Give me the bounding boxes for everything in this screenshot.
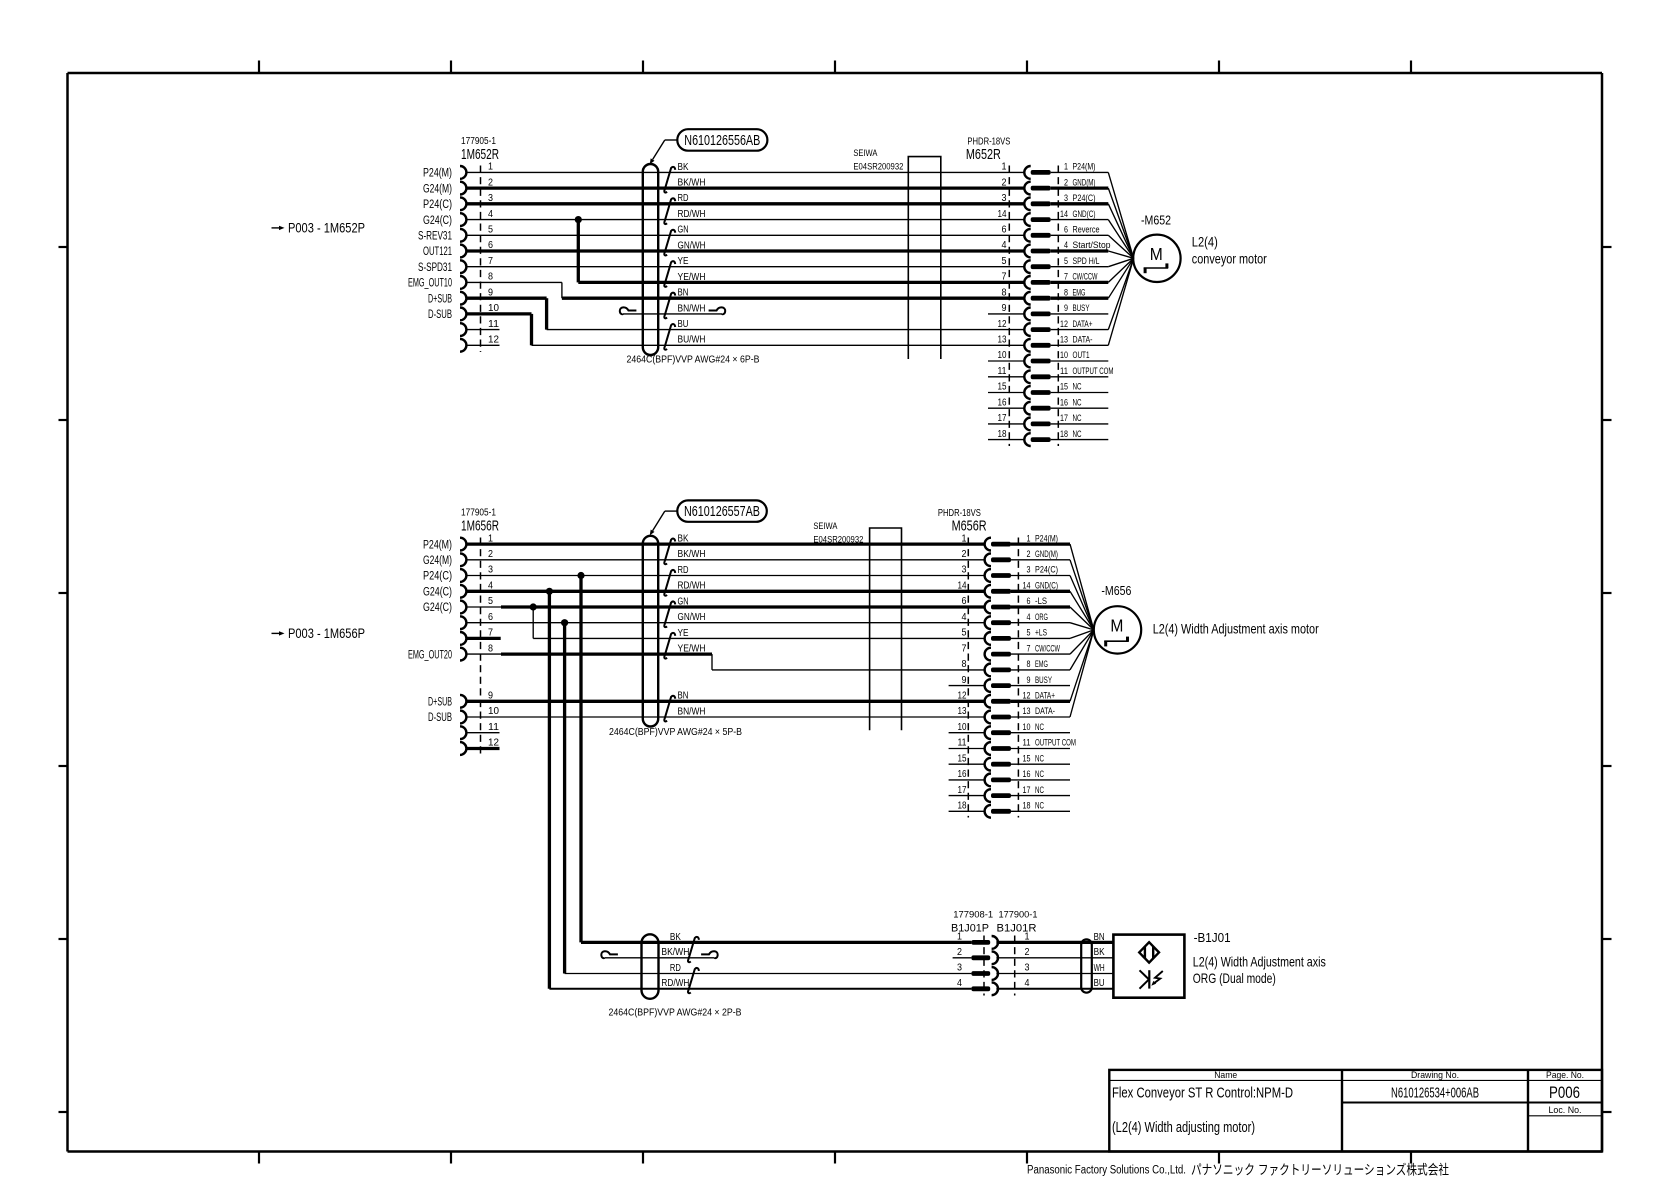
svg-text:11: 11 <box>488 721 499 733</box>
balloon leader <box>665 510 678 512</box>
svg-text:NC: NC <box>1035 769 1044 779</box>
connector B1J01R pin 1 socket <box>992 936 998 949</box>
connector M656R pin 2 socket <box>985 553 991 566</box>
svg-text:12: 12 <box>488 334 499 346</box>
svg-text:B1J01R: B1J01R <box>997 922 1037 934</box>
svg-text:OUT1: OUT1 <box>1073 350 1090 360</box>
wire GN (S-REV31 to M652R pin6) <box>466 234 1025 236</box>
svg-text:+LS: +LS <box>1035 628 1047 638</box>
connector 1M652R pin 10 contact <box>460 308 466 321</box>
motor lead from M656R row 4 <box>1070 591 1094 630</box>
wire branch G24(C) down to YE/WH <box>577 220 580 283</box>
svg-text:4: 4 <box>1002 240 1007 251</box>
svg-text:P24(M): P24(M) <box>423 168 452 180</box>
svg-text:D+SUB: D+SUB <box>428 697 452 709</box>
connector M652R pin 8 socket <box>1024 292 1030 305</box>
motor lead from M652R row 2 <box>1108 188 1133 258</box>
M652R pin 4 lead <box>1051 249 1109 252</box>
svg-text:11: 11 <box>488 318 499 330</box>
svg-text:BN: BN <box>678 691 689 702</box>
svg-text:Name: Name <box>1214 1070 1237 1081</box>
svg-text:CW/CCW: CW/CCW <box>1035 643 1060 653</box>
wire M656R row13 stub <box>949 732 985 734</box>
M656R pin 8 lead <box>1011 669 1070 671</box>
wire M656R row 18 stub <box>949 810 985 812</box>
svg-text:NC: NC <box>1073 413 1082 423</box>
M656R pin 13 lead <box>1011 716 1070 718</box>
svg-text:16: 16 <box>1023 769 1031 780</box>
svg-text:SPD H/L: SPD H/L <box>1073 256 1100 266</box>
svg-text:P003 - 1M656P: P003 - 1M656P <box>288 626 365 641</box>
connector M656R pin 12 socket <box>985 695 991 708</box>
svg-text:WH: WH <box>1094 963 1105 974</box>
svg-text:P24(C): P24(C) <box>423 199 452 211</box>
wire D+SUB stub <box>466 297 547 300</box>
wire BU (DATA+ to M652R pin12) <box>547 329 1025 331</box>
connector M652R pin 16 contact <box>1031 406 1051 411</box>
svg-text:3: 3 <box>1025 962 1030 974</box>
connector M656R pin 18 socket <box>985 805 991 818</box>
svg-text:GND(C): GND(C) <box>1035 581 1058 591</box>
M652R pin 13 lead <box>1051 344 1109 346</box>
connector M656R pin 8 socket <box>985 664 991 677</box>
connector 1M656R pin 1 contact <box>460 538 466 551</box>
svg-text:5: 5 <box>1027 628 1031 639</box>
wire GN (G24(C) pin5 to M656R pin6) <box>466 606 501 608</box>
svg-text:L2(4): L2(4) <box>1192 233 1218 249</box>
M656R pin 18 lead <box>1011 810 1070 812</box>
svg-text:9: 9 <box>1064 303 1068 314</box>
svg-text:1: 1 <box>488 161 493 173</box>
svg-text:2: 2 <box>1025 946 1030 958</box>
shield clamp box <box>908 157 941 359</box>
title block divider drawing/page <box>1527 1070 1529 1152</box>
connector M656R pin 15 contact <box>991 762 1011 767</box>
connector M656R pin 7 contact <box>991 652 1011 657</box>
svg-text:Start/Stop: Start/Stop <box>1073 240 1111 250</box>
wire RD (P24(C) to M652R pin3) <box>466 202 1025 205</box>
connector B1J01R pin 2 socket <box>992 951 998 964</box>
M656R pin 10 lead <box>1011 732 1070 734</box>
wire M652R row 17 stub <box>988 423 1025 425</box>
title block row line <box>1342 1102 1602 1104</box>
svg-text:S-REV31: S-REV31 <box>418 231 452 243</box>
svg-text:RD/WH: RD/WH <box>661 978 689 989</box>
connector M652R pin 9 socket <box>1024 308 1030 321</box>
connector 1M656R pin 6 contact <box>460 616 466 629</box>
svg-text:14: 14 <box>998 209 1007 220</box>
connector M652R pin 12 socket <box>1024 323 1030 336</box>
svg-text:15: 15 <box>1060 382 1068 393</box>
svg-text:5: 5 <box>1002 256 1007 267</box>
svg-text:2464C(BPF)VVP AWG#24 × 2P-B: 2464C(BPF)VVP AWG#24 × 2P-B <box>609 1007 742 1018</box>
svg-text:Reverce: Reverce <box>1073 225 1100 235</box>
motor M652 body <box>1133 235 1180 282</box>
M656R pin 12 lead <box>1011 700 1070 703</box>
svg-text:14: 14 <box>958 581 967 592</box>
connector M652R pin 9 contact <box>1031 312 1051 317</box>
svg-text:16: 16 <box>998 397 1007 408</box>
svg-text:18: 18 <box>958 801 967 812</box>
M652R pin 8 lead <box>1051 297 1109 300</box>
M656R pin 3 lead <box>1011 575 1070 577</box>
M652R pin 5 lead <box>1051 266 1109 268</box>
svg-text:BUSY: BUSY <box>1073 303 1090 313</box>
M656R pin 14 lead <box>1011 590 1070 593</box>
svg-text:3: 3 <box>1002 193 1007 204</box>
connector M652R pin 8 contact <box>1031 296 1051 301</box>
svg-text:M652R: M652R <box>966 146 1001 163</box>
svg-text:8: 8 <box>488 271 493 283</box>
connector 1M656R pin 5 contact <box>460 601 466 614</box>
svg-text:E04SR200932: E04SR200932 <box>853 162 903 173</box>
svg-text:12: 12 <box>958 691 967 702</box>
svg-text:P24(M): P24(M) <box>423 539 452 551</box>
wire M652R row 16 stub <box>988 407 1025 409</box>
svg-text:13: 13 <box>958 706 967 717</box>
svg-text:3: 3 <box>488 564 493 576</box>
twisted pair mark BN/BN-WH <box>664 696 675 722</box>
svg-text:13: 13 <box>998 335 1007 346</box>
wire to M656R pin8 EMG <box>712 669 985 671</box>
connector B1J01P dashed body line <box>983 936 985 996</box>
connector 1M652R dashed body line <box>480 166 482 353</box>
svg-text:BN/WH: BN/WH <box>678 706 706 717</box>
svg-text:16: 16 <box>1060 397 1068 408</box>
wire BK/WH (G24(M) to M652R pin2) <box>466 186 1025 189</box>
connector 1M652R pin 11 contact <box>460 323 466 336</box>
svg-text:P24(C): P24(C) <box>423 571 452 583</box>
wire M656R row 15 stub <box>949 763 985 765</box>
wire RD (P24(C) to M656R pin3) <box>466 575 985 577</box>
twisted pair mark RD/RD-WH <box>688 968 699 993</box>
svg-text:6: 6 <box>1064 225 1068 236</box>
connector M656R pin 18 contact <box>991 809 1011 814</box>
connector M656R pin 10 socket <box>985 726 991 739</box>
connector M656R pin 3 contact <box>991 573 1011 578</box>
svg-text:8: 8 <box>488 642 493 654</box>
cable label N610126557AB balloon <box>677 500 767 521</box>
wire YE/WH (to M652R pin7) <box>578 281 1024 284</box>
M652R pin 7 lead <box>1051 281 1109 284</box>
svg-text:OUTPUT COM: OUTPUT COM <box>1073 366 1114 376</box>
connector M656R pin 11 contact <box>991 746 1011 751</box>
connector M652R pin 15 socket <box>1024 386 1030 399</box>
wire M656R row 16 stub <box>949 779 985 781</box>
wire WH (B1J01R pin3 to sensor) <box>996 973 1113 975</box>
M656R pin 9 lead <box>1011 685 1070 687</box>
connector M656R pin 11 socket <box>985 742 991 755</box>
svg-text:D+SUB: D+SUB <box>428 293 452 305</box>
M652R pin 14 lead <box>1051 219 1109 221</box>
sensor cable shield oval <box>1081 939 1092 992</box>
svg-text:DATA-: DATA- <box>1035 706 1055 716</box>
svg-text:7: 7 <box>1002 272 1007 283</box>
svg-text:10: 10 <box>1023 722 1031 733</box>
M652R pin 3 lead <box>1051 202 1109 205</box>
svg-text:BU/WH: BU/WH <box>678 335 706 346</box>
junction G24(C) branch <box>546 588 553 595</box>
svg-text:D-SUB: D-SUB <box>428 712 452 724</box>
connector B1J01P pin 1 contact <box>971 940 990 945</box>
svg-text:8: 8 <box>1027 659 1031 670</box>
twisted pair mark BK/BK-WH <box>688 937 699 962</box>
svg-text:177908-1: 177908-1 <box>953 910 993 921</box>
connector M652R pin 16 socket <box>1024 402 1030 415</box>
motor M656 base symbol <box>1104 640 1129 642</box>
svg-text:Panasonic Factory Solutions Co: Panasonic Factory Solutions Co.,Ltd. <box>1027 1165 1186 1177</box>
cable shield N610126557AB <box>643 536 658 727</box>
connector M656R pin 3 socket <box>985 569 991 582</box>
junction G24(C)/YE-WH <box>575 216 582 223</box>
connector M652R pin 18 socket <box>1024 433 1030 446</box>
svg-text:2464C(BPF)VVP AWG#24 × 6P-B: 2464C(BPF)VVP AWG#24 × 6P-B <box>627 354 760 365</box>
connector 1M656R dashed body line <box>480 538 482 756</box>
connector M656R pin 5 contact <box>991 636 1011 641</box>
motor M652 base symbol <box>1144 267 1169 269</box>
svg-text:4: 4 <box>1025 977 1030 989</box>
motor lead from M656R row 8 <box>1070 630 1094 654</box>
connector M652R pin 17 socket <box>1024 418 1030 431</box>
connector M652R pin 7 socket <box>1024 276 1030 289</box>
connector M656R pin 4 socket <box>985 616 991 629</box>
svg-text:18: 18 <box>998 429 1007 440</box>
connector M656R pin 5 socket <box>985 632 991 645</box>
connector M656R pin 16 socket <box>985 774 991 787</box>
svg-text:NC: NC <box>1035 722 1044 732</box>
svg-text:15: 15 <box>998 382 1007 393</box>
connector 1M656R pin 4 contact <box>460 585 466 598</box>
wire BN (EMG to M652R pin8) <box>562 297 1025 300</box>
connector 1M656R pin 3 contact <box>460 569 466 582</box>
connector B1J01R dashed body line <box>1014 936 1016 996</box>
svg-text:14: 14 <box>1060 209 1068 220</box>
svg-text:(L2(4) Width adjusting motor): (L2(4) Width adjusting motor) <box>1112 1119 1255 1136</box>
connector M656R pin 2 contact <box>991 557 1011 562</box>
M656R pin 1 lead <box>1011 542 1070 545</box>
svg-text:1: 1 <box>1064 162 1068 173</box>
M652R pin 12 lead <box>1051 329 1109 331</box>
svg-text:2: 2 <box>1002 177 1007 188</box>
connector M656R pin 13 contact <box>991 715 1011 720</box>
connector M652R pin 4 contact <box>1031 249 1051 254</box>
connector M656R dashed body line (right) <box>1017 538 1019 818</box>
motor lead from M652R row 11 <box>1108 258 1133 329</box>
title block divider name/drawing <box>1341 1070 1343 1152</box>
motor M656 body <box>1094 606 1141 653</box>
wire BK (P24(M) to M656R pin1) <box>466 542 985 545</box>
svg-text:YE: YE <box>678 628 689 639</box>
connector M652R dashed body line (right) <box>1057 166 1059 447</box>
svg-text:GND(M): GND(M) <box>1035 549 1058 559</box>
connector M652R pin 10 socket <box>1024 355 1030 368</box>
svg-text:P24(C): P24(C) <box>1073 193 1096 203</box>
M656R pin 7 lead <box>1011 653 1070 655</box>
motor lead from M656R row 11 <box>1070 630 1094 701</box>
svg-text:SEIWA: SEIWA <box>853 148 878 159</box>
connector M656R pin 1 contact <box>991 542 1011 547</box>
svg-text:11: 11 <box>1060 366 1068 377</box>
svg-text:10: 10 <box>998 350 1007 361</box>
twisted pair mark BN/BN/WH <box>664 293 675 319</box>
wire 1M656R pin12 stub <box>466 747 500 750</box>
connector B1J01P pin 3 contact <box>971 971 990 976</box>
motor lead from M652R row 6 <box>1108 251 1133 258</box>
svg-text:17: 17 <box>1023 785 1031 796</box>
connector M652R pin 3 contact <box>1031 201 1051 206</box>
connector M652R pin 2 socket <box>1024 182 1030 195</box>
svg-text:YE/WH: YE/WH <box>678 272 706 283</box>
connector 1M652R pin 5 contact <box>460 229 466 242</box>
motor lead from M656R row 3 <box>1070 576 1094 630</box>
svg-text:1M652R: 1M652R <box>461 146 499 163</box>
svg-text:BUSY: BUSY <box>1035 675 1052 685</box>
motor lead from M652R row 4 <box>1108 220 1133 259</box>
page reference P003 - 1M652P <box>272 227 280 229</box>
twisted pair mark YE/YE/WH <box>664 261 675 287</box>
svg-text:-M652: -M652 <box>1141 213 1171 228</box>
wire EMG_OUT10 stub <box>466 281 562 283</box>
svg-text:P006: P006 <box>1549 1084 1580 1102</box>
svg-text:ORG: ORG <box>1035 612 1048 622</box>
connector M656R pin 9 contact <box>991 683 1011 688</box>
wire M656R row14 stub <box>949 748 985 750</box>
M656R pin 2 lead <box>1011 559 1070 561</box>
svg-text:BU: BU <box>1094 978 1105 989</box>
connector 1M656R pin 9 contact <box>460 695 466 708</box>
svg-text:G24(C): G24(C) <box>423 602 452 614</box>
svg-text:9: 9 <box>1027 675 1031 686</box>
svg-text:NC: NC <box>1073 382 1082 392</box>
connector M652R pin 13 socket <box>1024 339 1030 352</box>
svg-text:BK: BK <box>1094 947 1105 958</box>
junction ORG branch <box>561 619 568 626</box>
connector M652R pin 12 contact <box>1031 327 1051 332</box>
connector M656R pin 8 contact <box>991 668 1011 673</box>
M652R pin 2 lead <box>1051 186 1109 189</box>
junction G24(C) pin5 branch <box>530 603 537 610</box>
svg-text:5: 5 <box>488 224 493 236</box>
svg-text:3: 3 <box>962 565 967 576</box>
svg-text:BN/WH: BN/WH <box>678 303 706 314</box>
M656R pin 16 lead <box>1011 779 1070 781</box>
connector 1M656R pin 11 contact <box>460 726 466 739</box>
svg-text:N610126557AB: N610126557AB <box>684 504 760 520</box>
title block loc row line <box>1528 1115 1602 1117</box>
svg-text:1: 1 <box>957 931 962 943</box>
wire BN (D+SUB to M656R pin12) <box>466 700 985 703</box>
wire GN/WH (OUT121 to M652R pin4) <box>466 249 1025 252</box>
motor lead from M656R row 12 <box>1070 630 1094 717</box>
svg-text:GN/WH: GN/WH <box>678 240 706 251</box>
connector M652R pin 15 contact <box>1031 390 1051 395</box>
page reference P003 - 1M656P <box>272 632 280 634</box>
svg-text:3: 3 <box>1027 565 1031 576</box>
wire branch pin5 down to YE <box>532 607 534 638</box>
M656R pin 4 lead <box>1011 622 1070 624</box>
svg-text:2: 2 <box>957 946 962 958</box>
M652R pin 11 lead <box>1051 376 1109 378</box>
twisted pair mark BU/BU/WH <box>664 324 675 350</box>
svg-text:2: 2 <box>488 548 493 560</box>
sensor B1J01 photoelectric symbol <box>1140 970 1149 988</box>
wire RD/WH (G24(C) to M652R pin14) <box>466 219 1025 221</box>
svg-text:P003 - 1M652P: P003 - 1M652P <box>288 221 365 236</box>
svg-text:10: 10 <box>488 705 499 717</box>
motor lead from M652R row 7 <box>1108 258 1133 266</box>
connector M656R dashed body line (left) <box>967 538 969 818</box>
cable label N610126556AB balloon <box>677 129 767 151</box>
svg-text:10: 10 <box>1060 350 1068 361</box>
svg-text:M: M <box>1150 244 1163 264</box>
svg-text:GND(M): GND(M) <box>1073 177 1096 187</box>
svg-text:5: 5 <box>488 595 493 607</box>
svg-text:1: 1 <box>962 533 967 544</box>
connector M652R pin 5 socket <box>1024 260 1030 273</box>
junction P24(C) branch <box>577 572 584 579</box>
connector M656R pin 1 socket <box>985 538 991 551</box>
svg-text:18: 18 <box>1060 429 1068 440</box>
svg-text:ORG (Dual mode): ORG (Dual mode) <box>1193 970 1276 986</box>
wire branch ORG down to B1J01 RD <box>563 623 566 974</box>
connector M652R pin 4 socket <box>1024 245 1030 258</box>
wire B1J01P pin2 stub <box>953 957 972 959</box>
wire D+SUB step down <box>545 298 548 329</box>
wire M656R row 17 stub <box>949 795 985 797</box>
balloon leader <box>665 139 678 141</box>
connector M656R pin 10 contact <box>991 730 1011 735</box>
connector M652R pin 17 contact <box>1031 422 1051 427</box>
svg-text:9: 9 <box>962 675 967 686</box>
svg-text:BK/WH: BK/WH <box>678 178 706 189</box>
wire YE/WH (EMG_OUT20) <box>466 653 501 655</box>
svg-text:L2(4) Width Adjustment axis: L2(4) Width Adjustment axis <box>1193 953 1326 969</box>
connector M656R pin 17 contact <box>991 793 1011 798</box>
svg-text:5: 5 <box>1064 256 1068 267</box>
svg-text:NC: NC <box>1035 753 1044 763</box>
svg-text:Loc. No.: Loc. No. <box>1549 1105 1582 1116</box>
motor lead from M656R row 9 <box>1070 630 1094 670</box>
svg-text:EMG: EMG <box>1035 659 1048 669</box>
connector M656R pin 6 contact <box>991 605 1011 610</box>
svg-text:7: 7 <box>488 255 493 267</box>
wire BK (B1J01R pin2 to sensor) <box>996 957 1113 959</box>
svg-text:SEIWA: SEIWA <box>813 521 838 532</box>
svg-text:OUT121: OUT121 <box>423 246 452 258</box>
connector 1M652R pin 3 contact <box>460 197 466 210</box>
connector M652R pin 14 socket <box>1024 213 1030 226</box>
motor lead from M652R row 8 <box>1108 258 1133 282</box>
wire M652R row 18 stub <box>988 439 1025 441</box>
connector M652R pin 14 contact <box>1031 217 1051 222</box>
wire BU/WH (DATA- to M652R pin13) <box>532 344 1025 346</box>
cable shield N610126556AB <box>643 164 658 355</box>
svg-text:BU: BU <box>678 319 689 330</box>
connector M656R pin 13 socket <box>985 711 991 724</box>
svg-text:M656R: M656R <box>952 518 987 535</box>
connector M652R pin 13 contact <box>1031 343 1051 348</box>
svg-text:NC: NC <box>1035 801 1044 811</box>
connector 1M656R pin 7 contact <box>460 632 466 645</box>
connector B1J01R pin 3 socket <box>992 967 998 980</box>
svg-text:1: 1 <box>1002 162 1007 173</box>
svg-text:G24(C): G24(C) <box>423 215 452 227</box>
M656R pin 17 lead <box>1011 795 1070 797</box>
svg-text:N610126534+006AB: N610126534+006AB <box>1391 1084 1479 1101</box>
wire branch G24(C) down to B1J01 RD/WH <box>548 591 551 989</box>
svg-text:M: M <box>1110 616 1123 636</box>
svg-text:RD: RD <box>678 193 689 204</box>
